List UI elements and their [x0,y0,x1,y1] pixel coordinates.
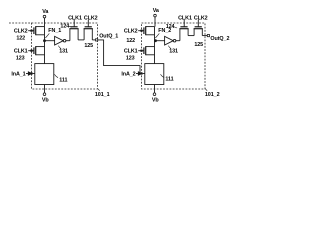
svg-text:124: 124 [166,24,175,30]
inverter 131 [165,36,176,45]
leader 111 [161,74,165,77]
wire CLK2 to gate of 122 [28,30,34,32]
transistor 122 [34,26,45,35]
svg-text:CLK1: CLK1 [68,15,82,21]
svg-text:InA_1: InA_1 [11,72,25,78]
terminal Va [43,15,46,18]
terminal OutQ_1 [96,39,98,41]
transistor 123 [144,46,155,55]
wire CLK2 to gate of 122 [138,30,144,32]
svg-text:CLK1: CLK1 [14,49,28,55]
svg-text:111: 111 [59,77,67,83]
wire vertical rail [44,27,46,64]
svg-text:CLK2: CLK2 [124,29,138,35]
svg-text:123: 123 [16,56,25,62]
svg-text:125: 125 [194,42,203,48]
wire InA_1 arrow [26,72,32,75]
wire InA to circuit 111 [143,73,145,75]
terminal InA_2 [140,72,142,74]
wire inverter out to 124 [66,40,70,42]
svg-text:Va: Va [42,9,49,15]
wire CLK1 to gate of 124 [73,20,75,27]
wire vertical rail [154,27,156,64]
svg-text:131: 131 [169,48,178,54]
wire Va to rail [154,17,156,27]
svg-text:CLK1: CLK1 [178,15,192,21]
wire node to inverter [155,40,165,42]
leader 101_1 [98,88,100,90]
wire InA_2 arrow [136,72,142,75]
wire 125 to OutQ [92,39,95,41]
svg-text:101_1: 101_1 [95,92,110,98]
circuit 111 box [145,64,164,85]
svg-text:FN_1: FN_1 [48,28,61,34]
wire inverter out to 124 [176,40,180,42]
terminal CLK2 [140,30,142,32]
terminal Vb [153,93,156,96]
svg-text:101_2: 101_2 [205,92,220,98]
terminal CLK1 [140,50,142,52]
svg-text:122: 122 [16,36,25,42]
svg-text:CLK2: CLK2 [84,15,98,21]
circuit 111 box [35,64,54,85]
svg-text:Vb: Vb [152,97,160,103]
node FN_2 [154,39,157,42]
svg-text:CLK2: CLK2 [194,15,208,21]
leader 124 [174,27,177,28]
svg-text:Vb: Vb [42,97,50,103]
wire InA to circuit 111 [33,73,35,75]
node FN_1 [43,39,46,42]
svg-text:CLK1: CLK1 [124,49,138,55]
leader 111 [54,74,58,77]
wire 111 to Vb [154,85,156,93]
transistor 122 [144,26,155,35]
wire CLK2 to gate of 125 [87,20,89,27]
wire 124 to 125 [188,35,194,37]
leader 124 [69,26,72,27]
wire node to inverter [45,40,55,42]
svg-text:125: 125 [84,43,93,49]
svg-text:131: 131 [59,48,68,54]
terminal CLK1 [30,50,32,52]
wire 124 to 125 [78,39,84,41]
terminal InA_1 [30,72,32,74]
inverter 131 [55,36,66,45]
wire CLK1 to gate of 124 [183,20,185,27]
wire CLK1 to gate of 123 [28,50,34,52]
terminal Va [154,14,157,17]
svg-text:124: 124 [60,23,69,29]
svg-text:InA_2: InA_2 [121,72,135,78]
svg-text:Va: Va [153,8,160,14]
wire OutQ_1 to InA_2 [98,40,140,72]
leader 131 [168,46,171,49]
transistor 124 [69,27,78,41]
leader FN_1 [45,33,49,38]
transistor 125 [194,27,203,36]
leader 101_2 [205,88,207,90]
leader FN_2 [155,33,159,38]
terminal Vb [43,93,46,96]
transistor 125 [84,27,93,40]
svg-text:CLK2: CLK2 [14,29,28,35]
terminal OutQ_2 [207,35,209,37]
dashed box top-left extension [9,22,32,24]
wire Va to rail [44,18,46,27]
terminal CLK2 [30,30,32,32]
wire 111 to Vb [44,85,46,93]
dashed box unit circuit 101_2 [142,23,206,89]
wire 125 to OutQ [202,35,207,37]
svg-text:OutQ_1: OutQ_1 [99,34,118,40]
svg-text:OutQ_2: OutQ_2 [210,36,229,42]
svg-text:123: 123 [126,56,135,62]
svg-text:122: 122 [126,38,135,44]
dashed box unit circuit 101_1 [32,23,98,89]
transistor 124 [179,27,188,41]
wire CLK2 to gate of 125 [197,20,199,27]
transistor 123 [34,46,45,55]
svg-text:111: 111 [165,77,173,83]
wire CLK1 to gate of 123 [138,50,144,52]
leader 131 [58,46,61,49]
